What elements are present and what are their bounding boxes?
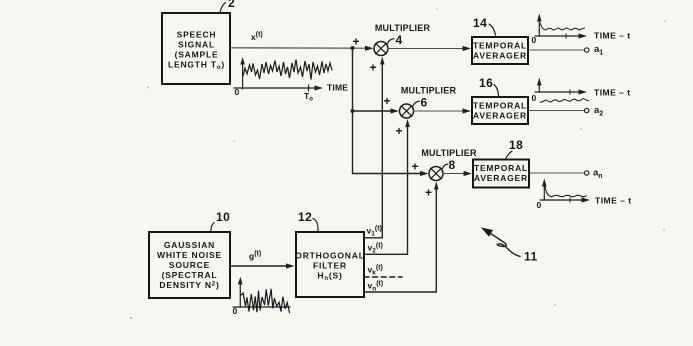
svg-text:MULTIPLIER: MULTIPLIER [421,148,477,158]
label 2 leader [220,0,235,13]
svg-text:SOURCE: SOURCE [169,260,210,270]
wire averager 14 to terminal a1 [528,49,584,51]
label 4 leader [388,33,403,47]
svg-text:+: + [383,94,390,108]
label 16 leader [479,76,499,96]
svg-text:AVERAGER: AVERAGER [473,51,527,61]
terminal node a1 [585,48,589,52]
svg-text:SPEECH: SPEECH [177,30,217,40]
wire corner into multiplier 8 [353,173,422,175]
label 10 leader [211,210,230,231]
svg-text:0: 0 [532,93,537,103]
svg-text:(SAMPLE: (SAMPLE [175,50,219,60]
x(t) waveform graph [234,57,348,103]
svg-text:GAUSSIAN: GAUSSIAN [164,240,215,250]
svg-text:0: 0 [532,35,537,45]
output graph an (TIME - t) [537,179,632,211]
wire multiplier 4 to averager 14 [388,48,465,50]
speech signal box 2 [162,13,230,84]
output graph a2 (TIME - t) [532,78,631,104]
svg-text:10: 10 [216,210,230,224]
svg-text:TIME – t: TIME – t [594,88,631,98]
svg-text:AVERAGER: AVERAGER [473,111,527,121]
label 14 leader [473,16,496,35]
dashed ellipsis line between vk and vn [364,276,402,278]
wire g(t) to orthogonal filter [230,265,288,267]
label 8 leader [443,158,456,172]
svg-text:0: 0 [233,306,238,316]
svg-text:TEMPORAL: TEMPORAL [473,101,527,111]
orthogonal filter box 12 [295,232,364,297]
svg-text:LENGTH To): LENGTH To) [168,60,225,72]
svg-text:12: 12 [298,210,312,224]
svg-text:TIME: TIME [327,83,348,93]
svg-text:WHITE NOISE: WHITE NOISE [157,250,222,260]
svg-text:TIME – t: TIME – t [595,196,632,206]
svg-text:4: 4 [396,33,403,47]
multiplier U8 [429,167,443,181]
multiplier U4 [374,42,388,56]
svg-text:ORTHOGONAL: ORTHOGONAL [295,251,364,261]
wire vertical from node down to multiplier 6 and 8 feed [352,48,354,174]
svg-text:2: 2 [228,0,235,10]
svg-text:SIGNAL: SIGNAL [178,40,215,50]
svg-text:8: 8 [449,158,456,172]
wire averager 16 to terminal a2 [528,110,584,112]
temporal averager box 18 [473,160,529,188]
svg-text:+: + [369,61,376,75]
svg-text:FILTER: FILTER [313,261,347,271]
svg-text:MULTIPLIER: MULTIPLIER [401,86,457,96]
svg-text:+: + [411,160,418,174]
g(t) waveform graph [233,277,291,317]
svg-text:MULTIPLIER: MULTIPLIER [375,23,431,33]
arrow into multiplier 4 [365,46,374,51]
label 12 leader [298,210,318,231]
svg-text:16: 16 [479,76,493,90]
svg-text:TIME – t: TIME – t [594,31,631,41]
wire v2 from filter up to multiplier 6 [364,119,410,254]
reference pointer 11 squiggle arrow [481,228,538,264]
svg-text:TEMPORAL: TEMPORAL [473,41,527,51]
output graph a1 (TIME - t) [532,14,631,46]
node junction at multiplier 6 feed [351,109,355,113]
svg-text:6: 6 [421,96,428,110]
wire averager 18 to terminal an [529,172,584,174]
multiplier U6 [400,104,414,118]
svg-text:(SPECTRAL: (SPECTRAL [162,270,218,280]
svg-text:TEMPORAL: TEMPORAL [474,163,528,173]
svg-text:14: 14 [473,16,487,30]
terminal node an [585,171,589,175]
node junction on x(t) line [351,46,355,50]
svg-text:0: 0 [537,200,542,210]
wire x(t) from box 2 to multiplier 4 [230,47,366,49]
svg-text:AVERAGER: AVERAGER [474,173,528,183]
temporal averager box 16 [472,97,528,124]
label 18 leader [506,138,523,158]
wire vn from filter up to multiplier 8 [364,182,439,293]
svg-text:11: 11 [524,250,538,264]
label 6 leader [413,96,428,110]
svg-text:DENSITY N2): DENSITY N2) [159,280,219,290]
svg-text:+: + [425,186,432,200]
wire multiplier 8 to averager 18 [443,173,466,175]
gaussian white noise source box 10 [149,232,230,298]
wire multiplier 6 to averager 16 [414,110,466,112]
svg-text:0: 0 [235,87,240,97]
svg-text:18: 18 [509,138,523,152]
svg-text:Hn(S): Hn(S) [317,271,342,283]
temporal averager box 14 [472,37,528,64]
terminal node a2 [585,108,589,112]
paper speckles [130,8,666,319]
wire into multiplier 6 [353,110,393,112]
svg-text:+: + [352,35,359,49]
wire v1 from filter up to multiplier 4 [364,57,385,238]
svg-text:+: + [395,124,402,138]
